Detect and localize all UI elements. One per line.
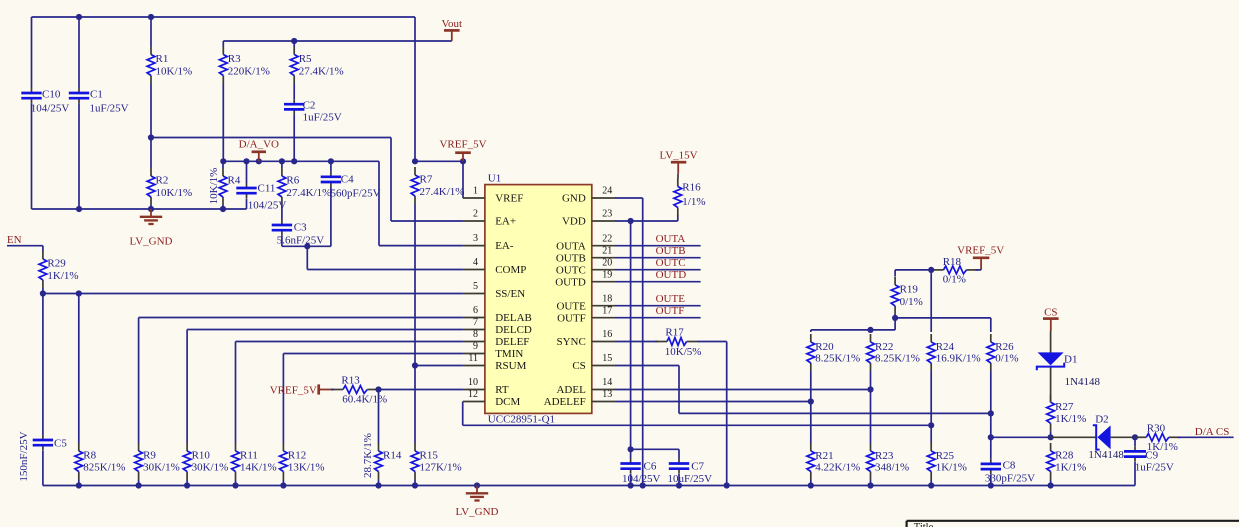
wire GND column <box>642 198 644 486</box>
ground LV_GND bottom <box>456 486 499 519</box>
svg-text:4: 4 <box>473 257 478 268</box>
svg-text:OUTB: OUTB <box>556 252 586 264</box>
svg-text:R21: R21 <box>815 450 833 462</box>
junction ground rail <box>928 482 934 488</box>
svg-text:C9: C9 <box>1145 449 1158 461</box>
junction ADEL R22-R23 <box>867 386 873 392</box>
svg-text:8: 8 <box>473 329 478 340</box>
svg-text:C5: C5 <box>54 438 67 450</box>
junction R22 top <box>867 327 873 333</box>
wire DCM to R24-R25 node <box>463 424 932 426</box>
svg-text:R1: R1 <box>156 53 169 65</box>
junction SS/EN node <box>40 290 46 296</box>
svg-text:R5: R5 <box>299 53 312 65</box>
wire Vout rail <box>223 40 451 42</box>
wire ground rail <box>43 485 1135 487</box>
svg-text:28.7K/1%: 28.7K/1% <box>362 433 374 478</box>
svg-text:348/1%: 348/1% <box>875 462 909 474</box>
svg-text:R27: R27 <box>1055 401 1074 413</box>
svg-text:R2: R2 <box>156 175 169 187</box>
wire C11 top <box>246 161 248 183</box>
junction COMP node <box>304 243 310 249</box>
pin 21 OUTB <box>556 245 615 264</box>
wire R25 bottom <box>930 480 932 486</box>
svg-text:OUTD: OUTD <box>656 269 687 281</box>
junction C9 top <box>1132 434 1138 440</box>
capacitor C6 <box>620 459 660 486</box>
wire EA- drop <box>378 161 380 245</box>
wire VREF to pin1 <box>415 160 463 162</box>
svg-text:16: 16 <box>602 329 612 340</box>
junction ground-left <box>148 206 154 212</box>
wire CS drop <box>678 366 680 414</box>
wire R10 pin row <box>187 329 463 331</box>
svg-text:CS: CS <box>572 360 585 372</box>
svg-text:11: 11 <box>468 353 478 364</box>
svg-text:30K/1%: 30K/1% <box>192 462 229 474</box>
svg-text:1K/1%: 1K/1% <box>1055 462 1086 474</box>
svg-text:14K/1%: 14K/1% <box>240 462 277 474</box>
junction ground rail <box>988 482 994 488</box>
svg-text:R7: R7 <box>420 174 433 186</box>
svg-text:R24: R24 <box>936 341 955 353</box>
resistor R19 <box>891 277 923 314</box>
svg-text:3: 3 <box>473 233 478 244</box>
svg-text:EA-: EA- <box>495 240 514 252</box>
svg-text:OUTF: OUTF <box>656 305 685 317</box>
svg-text:19: 19 <box>602 269 612 280</box>
svg-text:VDD: VDD <box>562 216 586 228</box>
wire R14 column <box>378 390 380 444</box>
junction C11 top <box>243 158 249 164</box>
wire C1 top <box>78 17 80 88</box>
wire R22 to R23 <box>870 371 872 443</box>
resistor R4 <box>208 168 241 205</box>
svg-text:OUTD: OUTD <box>555 276 586 288</box>
pin 12 DCM <box>463 389 521 408</box>
junction R3-R4 <box>220 158 226 164</box>
svg-text:R8: R8 <box>83 450 96 462</box>
junction ground rail <box>724 482 730 488</box>
wire OUTD <box>615 281 701 283</box>
junction ground rail <box>640 482 646 488</box>
svg-text:R25: R25 <box>936 450 955 462</box>
wire C6 bottom <box>630 474 632 486</box>
svg-text:10K/1%: 10K/1% <box>208 168 220 205</box>
svg-text:COMP: COMP <box>495 264 526 276</box>
wire R4 top <box>222 161 224 168</box>
svg-text:104/25V: 104/25V <box>248 200 287 212</box>
svg-text:D/A_VO: D/A_VO <box>239 139 279 151</box>
pin 16 SYNC <box>556 329 615 348</box>
resistor R3 <box>219 47 270 84</box>
wire C4 top <box>330 161 332 172</box>
svg-text:5: 5 <box>473 281 478 292</box>
svg-text:6: 6 <box>473 305 478 316</box>
wire EA+ to pin 2 <box>391 220 463 222</box>
wire R8 top long <box>78 294 80 444</box>
wire node to R20-R22 tops <box>811 329 895 331</box>
capacitor C1 <box>69 88 129 115</box>
svg-text:4.22K/1%: 4.22K/1% <box>815 462 860 474</box>
junction ground rail <box>184 482 190 488</box>
svg-text:22: 22 <box>602 233 612 244</box>
wire VDD column <box>630 221 632 449</box>
pin 6 DELAB <box>463 305 532 324</box>
title block <box>907 521 1239 527</box>
capacitor C7 <box>668 459 713 486</box>
junction D2 anode node <box>1048 434 1054 440</box>
pin 11 RSUM <box>463 353 527 372</box>
junction ground rail <box>76 482 82 488</box>
svg-text:D1: D1 <box>1064 354 1077 366</box>
svg-text:12: 12 <box>468 389 478 400</box>
svg-text:C6: C6 <box>644 461 657 473</box>
wire EA+ drop <box>390 138 392 222</box>
resistor R2 <box>147 168 192 205</box>
svg-text:1uF/25V: 1uF/25V <box>90 103 129 115</box>
svg-text:20: 20 <box>602 257 612 268</box>
svg-text:16.9K/1%: 16.9K/1% <box>936 353 981 365</box>
junction RSUM <box>412 362 418 368</box>
capacitor C4 <box>321 172 381 200</box>
svg-text:14: 14 <box>602 377 612 388</box>
svg-text:C2: C2 <box>303 100 316 112</box>
svg-text:VREF_5V: VREF_5V <box>439 139 486 151</box>
wire R10 column <box>186 330 188 444</box>
capacitor C5 <box>18 431 67 481</box>
junction R8 top <box>76 290 82 296</box>
svg-text:1K/1%: 1K/1% <box>1055 413 1086 425</box>
svg-text:R9: R9 <box>143 450 156 462</box>
wire pin23 VDD <box>615 220 678 222</box>
junction ground rail <box>412 482 418 488</box>
resistor R7 <box>411 167 464 204</box>
resistor R30 <box>1134 422 1181 453</box>
pin 3 EA- <box>463 233 514 252</box>
junction ground rail <box>808 482 814 488</box>
wire ADELEF <box>615 401 811 403</box>
svg-text:R10: R10 <box>192 450 211 462</box>
wire R3 bottom <box>222 84 224 162</box>
wire ADEL <box>615 389 871 391</box>
svg-text:1uF/25V: 1uF/25V <box>1135 461 1174 473</box>
resistor R20 <box>807 334 860 371</box>
wire R18 left to R19 <box>895 269 933 271</box>
wire R27 bottom <box>1050 431 1052 437</box>
svg-text:23: 23 <box>602 209 612 220</box>
resistor R26 <box>987 334 1019 371</box>
resistor R12 <box>280 443 325 480</box>
wire OUTF <box>615 317 701 319</box>
wire C10 bottom <box>31 103 33 209</box>
svg-text:ADEL: ADEL <box>556 384 586 396</box>
svg-text:DELCD: DELCD <box>495 324 532 336</box>
wire EA+ feedback <box>151 137 391 139</box>
svg-text:R12: R12 <box>288 450 306 462</box>
pin 4 COMP <box>463 257 527 276</box>
svg-text:7: 7 <box>473 317 478 328</box>
svg-text:R16: R16 <box>682 182 701 194</box>
svg-text:30K/1%: 30K/1% <box>143 462 180 474</box>
wire C4 to COMP node <box>307 245 331 247</box>
wire C6 top <box>630 449 632 458</box>
resistor R24 <box>927 334 980 371</box>
resistor R27 <box>1047 394 1087 431</box>
svg-text:OUTE: OUTE <box>656 293 686 305</box>
svg-text:CS: CS <box>1044 306 1057 318</box>
pin 7 DELCD <box>463 317 532 336</box>
op-amp U1 UCC28951-Q1 body <box>485 173 592 426</box>
svg-text:330pF/25V: 330pF/25V <box>985 473 1035 485</box>
junction R24 top <box>928 267 934 273</box>
svg-text:27.4K/1%: 27.4K/1% <box>299 65 344 77</box>
wire RT to pin 10 <box>376 389 463 391</box>
wire R2 top <box>150 138 152 169</box>
svg-text:R15: R15 <box>420 450 439 462</box>
wire C11 bottom <box>246 198 248 209</box>
junction ground rail <box>474 482 480 488</box>
svg-text:R3: R3 <box>228 53 241 65</box>
svg-text:10K/1%: 10K/1% <box>156 187 193 199</box>
resistor R23 <box>867 443 910 480</box>
svg-text:RSUM: RSUM <box>495 360 526 372</box>
svg-text:15: 15 <box>602 353 612 364</box>
junction DCM R24-R25 <box>928 422 934 428</box>
svg-text:DELEF: DELEF <box>495 336 529 348</box>
resistor R10 <box>183 443 228 480</box>
pin 24 GND <box>562 186 615 205</box>
pin 15 CS <box>572 353 615 372</box>
wire R8 bottom <box>78 480 80 486</box>
wire R11 pin row <box>236 341 463 343</box>
wire R6 top <box>281 161 283 168</box>
wire R12 column <box>282 354 284 444</box>
svg-text:OUTA: OUTA <box>656 233 686 245</box>
wire R22 top stub <box>870 330 872 332</box>
junction C1 bottom <box>76 206 82 212</box>
junction R1 top <box>148 14 154 20</box>
svg-text:VREF_5V: VREF_5V <box>270 385 317 397</box>
capacitor C8 <box>981 459 1035 485</box>
svg-text:D2: D2 <box>1095 414 1108 426</box>
wire C4 bottom <box>330 187 332 246</box>
svg-text:R11: R11 <box>240 450 258 462</box>
svg-text:27.4K/1%: 27.4K/1% <box>420 186 465 198</box>
svg-text:DELAB: DELAB <box>495 312 532 324</box>
svg-text:R4: R4 <box>228 175 241 187</box>
wire CS long <box>679 412 991 414</box>
wire R5 top <box>293 41 295 47</box>
wire R19 bottom <box>894 314 896 318</box>
power port VREF_5V at R13 <box>270 384 331 396</box>
resistor R13 <box>331 375 387 406</box>
wire R19 top <box>894 270 896 277</box>
wire R9 pin row <box>139 317 463 319</box>
resistor R1 <box>147 47 192 84</box>
svg-text:OUTE: OUTE <box>556 300 586 312</box>
diode D2 1N4148 <box>1051 414 1135 462</box>
resistor R16 <box>674 179 706 216</box>
svg-text:ADELEF: ADELEF <box>544 396 586 408</box>
wire R10 bottom <box>186 480 188 486</box>
svg-text:60.4K/1%: 60.4K/1% <box>342 394 387 406</box>
svg-text:1N4148: 1N4148 <box>1065 376 1101 388</box>
svg-text:R13: R13 <box>341 375 360 387</box>
junction R19 bottom node <box>892 315 898 321</box>
junction R7 top <box>412 158 418 164</box>
wire R2 bottom <box>150 205 152 209</box>
capacitor C9 <box>1124 446 1174 473</box>
svg-text:2: 2 <box>473 209 478 220</box>
junction ground rail <box>136 482 142 488</box>
wire COMP drop <box>306 246 308 269</box>
resistor R5 <box>290 47 343 84</box>
wire C3 to COMP node <box>282 245 307 247</box>
svg-text:SYNC: SYNC <box>556 336 585 348</box>
svg-text:UCC28951-Q1: UCC28951-Q1 <box>488 414 555 426</box>
pin 5 SS/EN <box>463 281 525 300</box>
capacitor C2 <box>284 99 342 123</box>
svg-text:OUTB: OUTB <box>656 245 686 257</box>
svg-text:27.4K/1%: 27.4K/1% <box>286 187 331 199</box>
svg-text:C11: C11 <box>258 183 276 195</box>
svg-text:5.6nF/25V: 5.6nF/25V <box>277 235 324 247</box>
svg-text:R28: R28 <box>1055 450 1074 462</box>
wire R5 to C2 <box>293 84 295 100</box>
svg-text:EA+: EA+ <box>495 216 516 228</box>
power port LV_15V <box>660 150 698 179</box>
pin 17 OUTF <box>557 305 615 324</box>
svg-text:1/1%: 1/1% <box>682 196 705 208</box>
svg-text:825K/1%: 825K/1% <box>83 462 125 474</box>
junction VDD column top <box>628 218 634 224</box>
wire C9 bottom <box>1134 462 1136 486</box>
wire C1 bottom <box>78 103 80 209</box>
wire SYNC right <box>698 341 727 343</box>
wire COMP to pin 4 <box>307 269 463 271</box>
wire CS from pin 15 <box>615 365 679 367</box>
junction R6 top <box>279 158 285 164</box>
resistor R6 <box>278 168 331 205</box>
wire R26 top column <box>990 318 992 332</box>
svg-text:10: 10 <box>468 377 478 388</box>
svg-text:8.25K/1%: 8.25K/1% <box>875 353 920 365</box>
svg-text:C10: C10 <box>42 89 61 101</box>
wire R13 left <box>331 389 334 391</box>
resistor R25 <box>927 443 967 480</box>
wire R17 to ground column <box>726 342 728 486</box>
wire node to R26 top <box>895 317 991 319</box>
svg-text:13K/1%: 13K/1% <box>288 462 325 474</box>
wire C5 top <box>42 294 44 436</box>
svg-text:10uF/25V: 10uF/25V <box>668 473 713 485</box>
svg-text:10K/1%: 10K/1% <box>156 65 193 77</box>
junction ground rail <box>867 482 873 488</box>
svg-text:9: 9 <box>473 341 478 352</box>
junction C4 top <box>328 158 334 164</box>
wire R9 bottom <box>138 480 140 486</box>
resistor R11 <box>232 443 277 480</box>
power port D/A_VO <box>239 139 279 162</box>
junction ground rail <box>676 482 682 488</box>
svg-text:21: 21 <box>602 245 612 256</box>
capacitor C10 <box>21 88 69 115</box>
junction ADELEF R20-R21 <box>808 398 814 404</box>
resistor R17 <box>655 327 701 359</box>
pin 10 RT <box>463 377 509 396</box>
resistor R29 <box>39 251 79 288</box>
wire node drop <box>894 318 896 330</box>
svg-text:OUTC: OUTC <box>656 257 686 269</box>
svg-text:TMIN: TMIN <box>495 348 523 360</box>
pin 14 ADEL <box>556 377 615 396</box>
wire R16 bottom <box>677 215 679 221</box>
resistor R22 <box>867 334 920 371</box>
svg-text:Vout: Vout <box>442 18 463 30</box>
svg-text:D/A CS: D/A CS <box>1195 426 1230 438</box>
wire R12 pin row <box>283 353 463 355</box>
svg-text:U1: U1 <box>488 173 501 185</box>
power port Vout <box>442 18 463 41</box>
wire OUTB <box>615 257 701 259</box>
wire D/A VO rail <box>223 160 379 162</box>
diode D1 1N4148 <box>1037 331 1101 402</box>
svg-text:OUTA: OUTA <box>556 240 586 252</box>
svg-text:EN: EN <box>7 234 22 246</box>
wire top rail drop <box>414 17 416 161</box>
pin 22 OUTA <box>556 233 615 252</box>
svg-text:17: 17 <box>602 305 612 316</box>
power port VREF_5V pin1 <box>439 139 486 162</box>
wire R20 to R21 <box>810 371 812 443</box>
pin 18 OUTE <box>556 293 615 312</box>
wire C7 bottom <box>678 474 680 486</box>
svg-text:0/1%: 0/1% <box>943 274 966 286</box>
wire R18 right <box>976 269 982 271</box>
resistor R18 <box>932 256 979 286</box>
svg-text:OUTC: OUTC <box>556 264 586 276</box>
capacitor C3 <box>272 220 325 247</box>
svg-text:R22: R22 <box>875 341 893 353</box>
junction C8 top node <box>988 434 994 440</box>
svg-text:C4: C4 <box>341 174 354 186</box>
wire C8 top <box>990 437 992 459</box>
junction D/A VO port <box>256 158 262 164</box>
junction ground rail <box>375 482 381 488</box>
wire SYNC left <box>615 341 658 343</box>
svg-text:24: 24 <box>602 186 612 197</box>
svg-text:10K/5%: 10K/5% <box>665 346 702 358</box>
junction R4 ground <box>220 206 226 212</box>
svg-text:104/25V: 104/25V <box>31 103 70 115</box>
pin 13 ADELEF <box>544 389 615 408</box>
wire pin24 GND <box>615 197 643 199</box>
wire EA- to pin 3 <box>379 245 463 247</box>
svg-text:R6: R6 <box>286 175 299 187</box>
wire R1 bottom <box>150 84 152 138</box>
junction ground rail <box>280 482 286 488</box>
wire D/A CS <box>1178 436 1234 438</box>
wire R15 bottom <box>414 480 416 486</box>
wire C9 top lead <box>1134 437 1136 446</box>
wire R11 bottom <box>235 480 237 486</box>
svg-text:8.25K/1%: 8.25K/1% <box>815 353 860 365</box>
wire R4 bottom <box>222 205 224 209</box>
svg-text:R20: R20 <box>815 341 834 353</box>
pin 2 EA+ <box>463 209 516 228</box>
wire R1 top <box>150 17 152 47</box>
